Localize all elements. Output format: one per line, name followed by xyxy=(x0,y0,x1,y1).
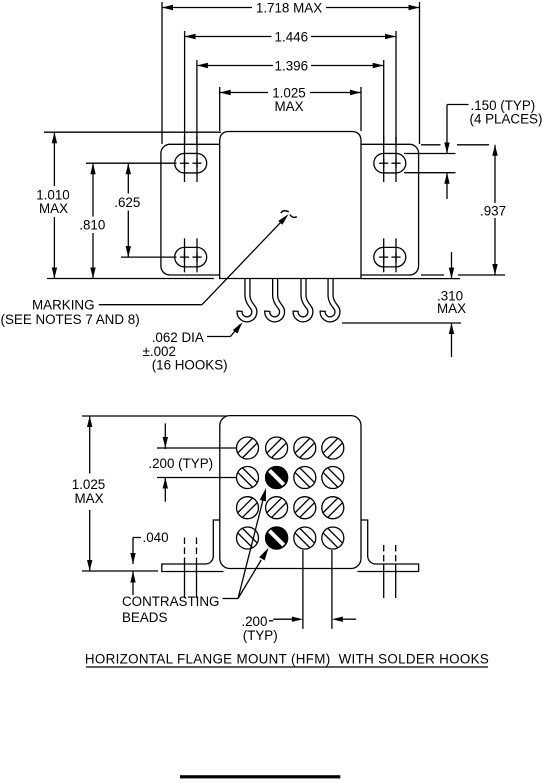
marking leader xyxy=(99,214,289,305)
hole centerline lower x=197.0 xyxy=(196,238,198,272)
beads leader lower xyxy=(238,548,269,599)
svg-text:1.396: 1.396 xyxy=(275,58,309,73)
hook dia leader xyxy=(207,322,243,336)
hole centerline upper x=383.7 xyxy=(383,137,385,183)
extension line right (1.718) xyxy=(419,2,421,144)
centerline top-left hole xyxy=(86,162,177,164)
hook end row1 col1 xyxy=(237,437,259,459)
svg-text:(TYP): (TYP) xyxy=(243,628,278,643)
hook end row3 col3 xyxy=(294,497,316,519)
label 16 HOOKS xyxy=(152,358,228,373)
flange hole centerline bottom view x=395.7 xyxy=(395,545,397,598)
label .062 DIA xyxy=(152,330,204,345)
footer separator line xyxy=(180,775,340,778)
svg-text:MAX: MAX xyxy=(274,99,303,114)
dimension .937 xyxy=(480,145,506,275)
ext line flange bottom (right) xyxy=(421,274,505,276)
hole centerline lower x=396.0 xyxy=(395,238,397,272)
extension line right (1.446) xyxy=(395,31,397,143)
svg-text:.810: .810 xyxy=(79,217,105,232)
dimension 1.446 xyxy=(185,29,396,44)
extension line left (1.396) xyxy=(196,60,198,143)
beads leader upper xyxy=(223,488,267,599)
left mounting flange xyxy=(161,144,229,275)
extension line left (1.025) xyxy=(219,87,221,131)
dimension 1.025 MAX xyxy=(220,85,361,114)
flange top reference line xyxy=(421,144,489,146)
svg-text:BEADS: BEADS xyxy=(122,610,167,625)
svg-text:HORIZONTAL FLANGE MOUNT (HFM): HORIZONTAL FLANGE MOUNT (HFM) WITH SOLDE… xyxy=(85,652,489,667)
svg-text:MARKING: MARKING xyxy=(32,297,95,312)
flange hole centerline bottom view x=383.7 xyxy=(383,545,385,598)
dimension .150 leader xyxy=(444,105,468,200)
svg-text:.937: .937 xyxy=(480,203,506,218)
label BEADS xyxy=(122,610,167,625)
ext line row1 center xyxy=(157,447,236,449)
ext line col3 xyxy=(302,550,304,629)
solder hook 1 (side view) xyxy=(236,278,254,319)
svg-text:1.718 MAX: 1.718 MAX xyxy=(256,0,322,15)
flange hole centerline bottom view x=196.5 xyxy=(196,538,198,599)
svg-text:(16 HOOKS): (16 HOOKS) xyxy=(152,358,228,373)
extension line right (1.396) xyxy=(383,60,385,143)
dimension .625 xyxy=(114,163,140,257)
flange hole centerline bottom view x=184.5 xyxy=(184,538,186,599)
svg-text:.062 DIA: .062 DIA xyxy=(152,330,204,345)
label .310 MAX xyxy=(437,288,466,316)
right flange bracket (bottom view) xyxy=(358,520,419,572)
label MARKING xyxy=(32,297,95,312)
solder hook 4 (side view) xyxy=(320,278,338,319)
mounting hole bottom-right xyxy=(374,247,406,267)
hook end row3 col1 xyxy=(237,497,259,519)
dimension .310 MAX lower arrow xyxy=(449,323,454,357)
svg-text:MAX: MAX xyxy=(74,491,103,506)
svg-text:(SEE NOTES 7 AND 8): (SEE NOTES 7 AND 8) xyxy=(1,312,140,327)
dimension .310 MAX upper arrow xyxy=(449,252,454,279)
dimension .040 xyxy=(130,530,168,595)
solder hook 2 (side view) xyxy=(264,278,282,319)
right mounting flange xyxy=(351,144,419,275)
hook end row1 col2 xyxy=(266,437,288,459)
dimension 1.025 MAX (bottom view) xyxy=(72,416,106,571)
marking squiggle xyxy=(281,211,297,218)
extension line left (1.718) xyxy=(161,2,163,144)
solder hook 3 (side view) xyxy=(293,278,311,319)
contrasting bead row2 col2 xyxy=(266,467,288,489)
extension line body bottom (left) xyxy=(47,278,214,280)
hook end row2 col3 xyxy=(294,467,316,489)
hook end row4 col4 xyxy=(322,527,344,549)
relay body (bottom view) xyxy=(220,416,361,569)
dimension 1.010 MAX xyxy=(36,132,70,278)
label tolerance xyxy=(143,344,176,359)
ext line hook bottom xyxy=(342,322,461,324)
label SEE NOTES xyxy=(1,312,140,327)
hook end row1 col4 xyxy=(322,437,344,459)
ext line foot bottom (left) xyxy=(82,570,158,572)
mounting hole top-left xyxy=(175,153,207,173)
hole centerline upper x=197.0 xyxy=(196,137,198,183)
label .150 (TYP) (4 PLACES) xyxy=(470,98,543,127)
hook end row4 col3 xyxy=(294,527,316,549)
hook end row4 col1 xyxy=(237,527,259,549)
left flange bracket (bottom view) xyxy=(162,520,224,572)
svg-text:.200 (TYP): .200 (TYP) xyxy=(148,456,213,471)
svg-text:.625: .625 xyxy=(114,195,140,210)
ext line body top (bottom view) xyxy=(82,415,231,417)
dimension .810 xyxy=(79,163,105,278)
dimension .200 TYP cols xyxy=(241,614,356,643)
hook end row2 col4 xyxy=(322,467,344,489)
dimension 1.718 MAX xyxy=(162,0,420,15)
title underline xyxy=(86,666,488,668)
svg-text:.200: .200 xyxy=(241,614,267,629)
extension line body top (left) xyxy=(44,131,221,133)
ext line hole bottom (right) xyxy=(404,172,456,174)
dimension .200 TYP rows xyxy=(148,423,213,501)
hook end row1 col3 xyxy=(294,437,316,459)
svg-text:1.446: 1.446 xyxy=(275,29,309,44)
label CONTRASTING xyxy=(122,594,219,609)
hook end row3 col4 xyxy=(322,497,344,519)
hole centerline lower x=184.5 xyxy=(184,238,186,272)
hole centerline lower x=383.7 xyxy=(383,238,385,272)
svg-text:(4 PLACES): (4 PLACES) xyxy=(470,112,543,127)
mounting hole top-right xyxy=(374,153,406,173)
svg-text:1.025: 1.025 xyxy=(72,477,106,492)
ext line row2 center xyxy=(157,477,236,479)
mounting hole bottom-left xyxy=(175,247,207,267)
extension line left (1.446) xyxy=(184,31,186,143)
relay case body xyxy=(220,132,361,279)
hook end row3 col2 xyxy=(266,497,288,519)
hole centerline upper x=184.5 xyxy=(184,137,186,183)
hook end row2 col1 xyxy=(237,467,259,489)
centerline bottom-left hole (.625 ext) xyxy=(121,256,177,258)
ext line hole top (right) xyxy=(404,153,456,155)
svg-text:MAX: MAX xyxy=(437,301,466,316)
svg-text:MAX: MAX xyxy=(39,201,68,216)
ext line col4 xyxy=(331,550,333,629)
hole centerline upper x=396.0 xyxy=(395,137,397,183)
extension line right (1.025) xyxy=(360,87,362,131)
dimension 1.396 xyxy=(197,58,384,73)
title text xyxy=(85,652,489,667)
contrasting bead row4 col2 xyxy=(266,527,288,549)
ext line body bottom (right) xyxy=(362,278,461,280)
svg-text:CONTRASTING: CONTRASTING xyxy=(122,594,219,609)
svg-text:.040: .040 xyxy=(142,530,168,545)
